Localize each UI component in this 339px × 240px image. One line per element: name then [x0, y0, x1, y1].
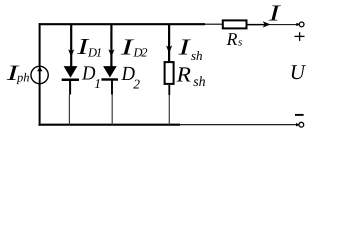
svg-text:R: R	[226, 29, 238, 49]
svg-text:1: 1	[94, 76, 101, 91]
svg-text:1: 1	[96, 46, 102, 60]
svg-text:ph: ph	[16, 71, 30, 85]
svg-text:2: 2	[133, 77, 140, 92]
svg-text:R: R	[176, 62, 191, 86]
svg-text:sh: sh	[191, 48, 203, 63]
svg-text:I: I	[267, 1, 281, 26]
svg-text:I: I	[177, 34, 191, 59]
svg-text:sh: sh	[193, 75, 205, 90]
svg-text:s: s	[238, 36, 242, 48]
svg-text:2: 2	[141, 46, 147, 60]
svg-text:U: U	[290, 60, 307, 84]
